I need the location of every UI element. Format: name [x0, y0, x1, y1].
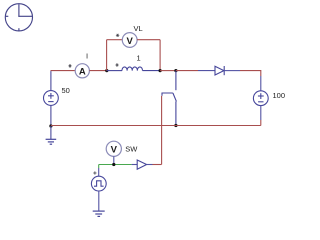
wire: VL loop right vertical	[159, 40, 161, 71]
ammeter U1	[75, 64, 89, 78]
pin: V2 bottom stub	[260, 106, 262, 120]
polarity star of inductor	[115, 64, 118, 67]
inductor L1	[107, 67, 160, 71]
ground GND1	[46, 139, 57, 144]
wire: VL loop top-left horizontal	[107, 39, 123, 41]
wire: buffer output to control riser	[153, 164, 162, 166]
wire: diode to right corner	[240, 71, 261, 76]
svg-text:A: A	[79, 67, 86, 78]
wire: junction down to ground	[50, 126, 52, 139]
wire: switch control vertical (from buffer)	[161, 96, 163, 165]
wire: top wire switch node to diode	[176, 70, 198, 72]
svg-text:SW: SW	[125, 145, 138, 154]
pin: voltmeter SW bottom lead	[113, 156, 115, 164]
node: switch bottom junction dot	[174, 124, 177, 127]
node: left inductor junction dot	[105, 69, 108, 72]
pin: buffer input stub	[132, 164, 138, 166]
wire: inductor node to switch node	[160, 70, 176, 72]
switch S1	[162, 71, 176, 126]
diode D1	[215, 66, 224, 75]
ground GND2	[93, 211, 105, 216]
wire: VL loop top-right horizontal	[137, 39, 160, 41]
voltage source V1	[44, 91, 59, 106]
node: V1 ground junction dot	[49, 124, 52, 127]
wire: green corner down	[98, 165, 100, 169]
wire: V1 top lead up to main node	[50, 71, 52, 91]
svg-text:V: V	[127, 36, 134, 47]
wire: ammeter to inductor node	[89, 70, 106, 72]
pin: pulse source top lead	[98, 168, 100, 176]
svg-text:100: 100	[273, 91, 286, 100]
svg-text:1: 1	[137, 54, 141, 63]
svg-text:50: 50	[62, 86, 70, 95]
pin: diode cathode stub	[224, 70, 240, 72]
pulse source V3	[91, 176, 106, 191]
node: right inductor junction dot	[159, 69, 162, 72]
wire: V1 bottom lead to ground node	[50, 105, 52, 126]
wire: VL loop left vertical	[106, 40, 108, 71]
pin: buffer output stub	[147, 164, 153, 166]
wire: V2 to bottom rail	[260, 120, 262, 126]
pin: pulse source bottom lead	[98, 191, 100, 211]
voltmeter SW	[106, 141, 121, 156]
wire: top-left horizontal to ammeter	[51, 70, 76, 72]
wire: green control net	[99, 164, 132, 166]
pin: diode anode stub	[198, 70, 215, 72]
svg-text:V: V	[111, 145, 118, 156]
node: switch top junction dot	[174, 69, 177, 72]
pin: V2 top stub	[260, 76, 262, 91]
svg-text:VL: VL	[134, 24, 143, 33]
voltage source V2	[253, 91, 268, 106]
polarity star of ammeter	[68, 64, 71, 67]
buffer A1	[137, 160, 146, 169]
svg-text:I: I	[86, 52, 88, 61]
wire: bottom rail	[51, 125, 261, 127]
voltmeter VL	[122, 33, 137, 48]
clock icon XSC1	[5, 4, 32, 31]
polarity plus of pulse source	[93, 171, 96, 174]
polarity star of voltmeter VL	[116, 34, 119, 37]
node: control junction dot	[112, 163, 115, 166]
